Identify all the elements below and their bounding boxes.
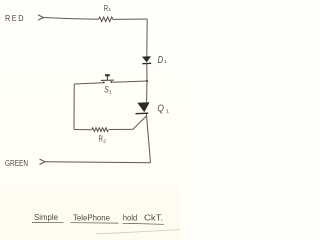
SCR Q1 — [136, 102, 150, 114]
diode D1 — [142, 56, 151, 64]
wire loop top edge right segment (node A to S1) — [111, 81, 147, 82]
svg-text:1: 1 — [109, 89, 112, 95]
wire Q1 anode stub (node A to Q1) — [146, 81, 148, 102]
paper fold edge bottom right — [96, 230, 180, 234]
wire loop bottom edge left — [74, 129, 92, 131]
wire loop left edge — [73, 84, 75, 130]
svg-text:hold: hold — [123, 213, 138, 222]
svg-text:1: 1 — [108, 7, 111, 13]
label S1 — [104, 85, 112, 96]
svg-text:S: S — [104, 85, 108, 95]
wire loop top edge left segment (S1 to corner) — [74, 83, 103, 84]
label R2 — [99, 135, 107, 145]
svg-text:Simple: Simple — [34, 213, 58, 222]
label D1 — [158, 55, 168, 66]
resistor R2 — [92, 128, 109, 132]
svg-text:CkT.: CkT. — [144, 214, 163, 223]
switch S1 pushbutton — [101, 74, 114, 83]
label R1 — [104, 3, 112, 13]
wire loop bottom edge right to gate — [109, 128, 133, 130]
terminal GREEN — [40, 159, 46, 164]
svg-text:2: 2 — [103, 139, 106, 145]
label Q1 — [157, 103, 169, 114]
wire gate lead of Q1 — [133, 116, 147, 129]
wire from RED terminal to R1 — [44, 18, 99, 20]
wire from R1 to top-right corner — [113, 18, 147, 20]
svg-text:R: R — [99, 135, 103, 144]
caption underline 1 — [32, 221, 64, 223]
svg-text:1: 1 — [164, 59, 167, 65]
svg-text:D: D — [158, 55, 164, 66]
node A junction dot — [146, 80, 148, 82]
terminal RED — [38, 15, 44, 20]
svg-text:1: 1 — [166, 109, 169, 115]
wire Q1 cathode down to GREEN rail — [146, 114, 150, 163]
resistor R1 — [99, 17, 114, 22]
svg-text:RED: RED — [5, 14, 25, 23]
caption underline 3 — [123, 223, 165, 224]
wire GREEN rail — [45, 161, 151, 164]
svg-text:TelePhone: TelePhone — [73, 213, 110, 222]
wire vertical corner down to D1 — [146, 19, 148, 57]
svg-text:GREEN: GREEN — [5, 159, 28, 168]
svg-text:Q: Q — [157, 103, 164, 114]
caption underline 2 — [71, 222, 119, 224]
wire D1 cathode down to node A — [146, 64, 148, 81]
